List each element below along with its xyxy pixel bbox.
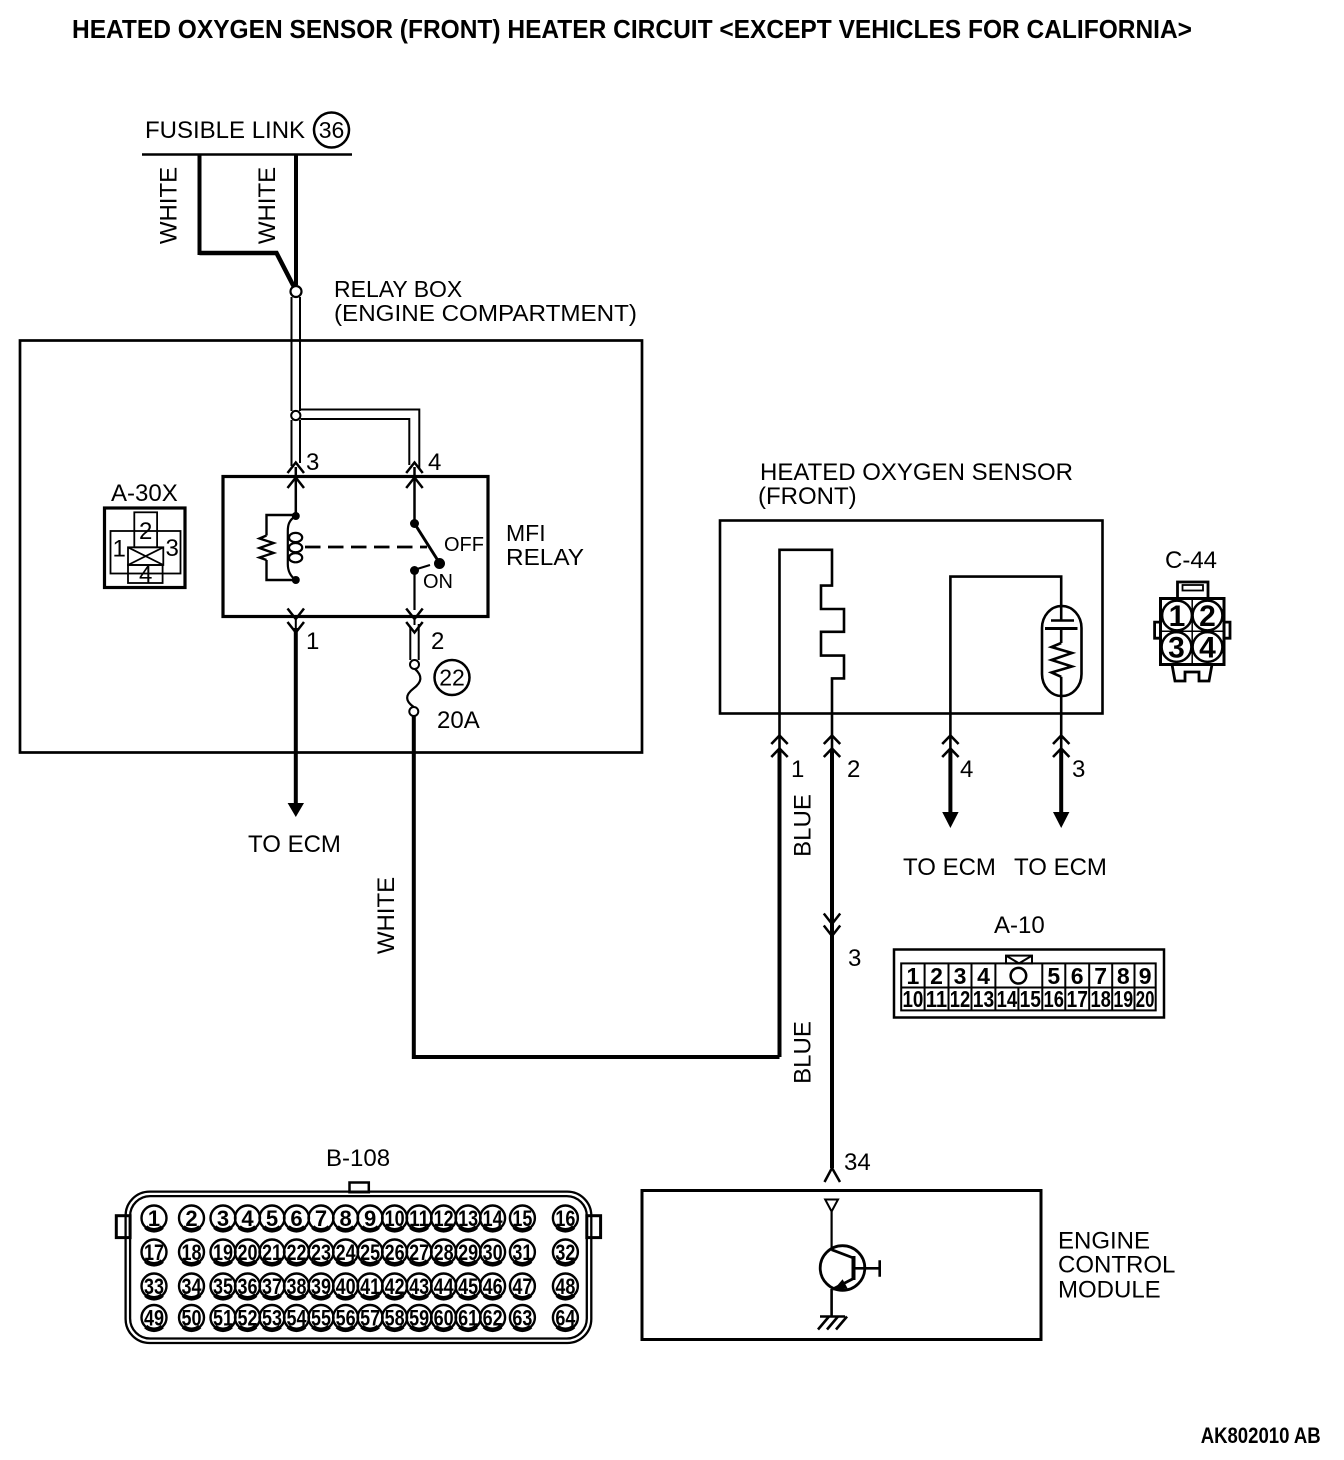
connector C-44 divider cross: [1161, 599, 1225, 665]
C-44 cavity 1: [1162, 600, 1192, 633]
svg-text:52: 52: [238, 1305, 258, 1330]
blue wire end fork at ECM: [825, 1168, 841, 1182]
svg-text:3: 3: [306, 449, 319, 476]
fusible link number 36: [314, 113, 349, 148]
svg-text:47: 47: [512, 1274, 532, 1299]
relay switch wire to pin 2: [413, 571, 415, 611]
svg-text:TO ECM: TO ECM: [903, 854, 996, 881]
svg-text:MFI: MFI: [506, 520, 546, 546]
svg-text:33: 33: [144, 1274, 164, 1299]
svg-text:3: 3: [166, 535, 179, 562]
svg-text:A-10: A-10: [994, 912, 1045, 939]
svg-text:48: 48: [555, 1274, 575, 1299]
sensor element capsule: [1042, 606, 1082, 696]
svg-text:12: 12: [950, 986, 971, 1012]
svg-text:43: 43: [409, 1274, 429, 1299]
svg-text:21: 21: [262, 1240, 282, 1265]
svg-text:OFF: OFF: [444, 534, 484, 556]
A-10 top row pin numbers: [907, 963, 1152, 989]
svg-text:6: 6: [290, 1206, 302, 1231]
svg-text:WHITE: WHITE: [373, 877, 400, 954]
svg-text:63: 63: [512, 1305, 532, 1330]
relay switch blade end dot: [434, 558, 445, 569]
relay box (engine compartment) outline: [20, 341, 642, 753]
svg-text:31: 31: [512, 1240, 532, 1265]
svg-text:3: 3: [848, 945, 861, 972]
relay coil L1: [288, 516, 302, 580]
svg-text:BLUE: BLUE: [790, 794, 817, 857]
fuse number 22 circled: [435, 660, 470, 695]
connector A-30X wide cavity box: [111, 531, 181, 574]
svg-text:16: 16: [555, 1206, 575, 1231]
ground symbol: [818, 1317, 847, 1330]
svg-text:2: 2: [139, 518, 152, 545]
B-108 pin row 17-32: [142, 1240, 578, 1265]
svg-text:50: 50: [182, 1305, 202, 1330]
svg-text:2: 2: [847, 756, 860, 783]
sensor cell wire pin 4: [950, 577, 1061, 714]
svg-text:2: 2: [1199, 600, 1216, 633]
blue wire connector pass-through arrows: [824, 914, 840, 937]
relay switch ON contact tick: [417, 565, 430, 569]
svg-text:9: 9: [364, 1206, 376, 1231]
svg-text:34: 34: [182, 1274, 203, 1299]
svg-text:16: 16: [1044, 986, 1065, 1012]
svg-text:1: 1: [306, 628, 319, 655]
svg-text:17: 17: [144, 1240, 164, 1265]
svg-text:51: 51: [213, 1305, 233, 1330]
connector B-108 outer shell: [126, 1192, 592, 1343]
svg-text:62: 62: [483, 1305, 503, 1330]
svg-text:40: 40: [336, 1274, 356, 1299]
heated oxygen sensor box: [720, 521, 1103, 714]
svg-text:28: 28: [434, 1240, 454, 1265]
svg-text:TO ECM: TO ECM: [1014, 854, 1107, 881]
svg-text:57: 57: [360, 1305, 380, 1330]
svg-text:WHITE: WHITE: [254, 167, 281, 244]
svg-text:4: 4: [960, 756, 973, 783]
svg-text:14: 14: [483, 1206, 504, 1231]
svg-text:19: 19: [1113, 986, 1133, 1012]
wire white right from fusible link: [294, 155, 298, 286]
svg-text:HEATED OXYGEN SENSOR: HEATED OXYGEN SENSOR: [760, 459, 1073, 486]
svg-text:34: 34: [844, 1149, 871, 1176]
transistor Q1 collector into base bar: [832, 1250, 854, 1258]
C-44 cavity 2: [1193, 600, 1223, 633]
svg-text:MODULE: MODULE: [1058, 1277, 1161, 1304]
sensor pin 1 arrows: [771, 714, 787, 758]
svg-text:22: 22: [287, 1240, 307, 1265]
connector A-10 outer box: [894, 950, 1164, 1018]
pin 3 arrow into MFI relay: [288, 463, 305, 517]
svg-text:25: 25: [360, 1240, 380, 1265]
connector B-108 left tab: [116, 1216, 130, 1238]
svg-text:27: 27: [409, 1240, 429, 1265]
arrow to ECM (pin 3): [1053, 812, 1069, 828]
svg-text:15: 15: [1020, 986, 1042, 1012]
svg-text:37: 37: [262, 1274, 282, 1299]
svg-text:29: 29: [458, 1240, 478, 1265]
connector C-44 body: [1161, 599, 1225, 665]
svg-text:4: 4: [1199, 632, 1216, 665]
arrow to ECM (left): [288, 803, 304, 817]
svg-text:13: 13: [458, 1206, 478, 1231]
svg-text:(FRONT): (FRONT): [758, 483, 857, 510]
B-108 pin row 49-64: [142, 1305, 578, 1330]
svg-text:2: 2: [431, 628, 444, 655]
svg-text:42: 42: [385, 1274, 405, 1299]
resistor zigzag: [260, 536, 274, 561]
connector B-108 top tab: [350, 1183, 369, 1193]
relay resistor parallel branch: [267, 515, 296, 580]
svg-text:20A: 20A: [437, 707, 480, 734]
svg-text:A-30X: A-30X: [111, 480, 178, 507]
wire bend joining white wires: [200, 253, 294, 286]
heater element comb: [780, 550, 845, 714]
B-108 pin row 1-16: [142, 1206, 578, 1231]
svg-text:64: 64: [555, 1305, 576, 1330]
svg-text:17: 17: [1067, 986, 1088, 1012]
svg-text:23: 23: [311, 1240, 331, 1265]
pin 4 arrow into MFI relay: [406, 463, 423, 524]
svg-text:ON: ON: [423, 571, 453, 593]
svg-text:8: 8: [339, 1206, 351, 1231]
connector A-30X cavity 2 box: [134, 512, 157, 547]
svg-text:61: 61: [458, 1305, 478, 1330]
svg-text:55: 55: [311, 1305, 331, 1330]
svg-text:58: 58: [385, 1305, 405, 1330]
svg-text:46: 46: [483, 1274, 503, 1299]
relay coil node top: [292, 512, 300, 520]
svg-text:24: 24: [336, 1240, 357, 1265]
svg-text:45: 45: [458, 1274, 478, 1299]
pin 1 arrow out of MFI relay: [288, 609, 305, 633]
svg-text:14: 14: [997, 986, 1018, 1012]
connector B-108 right tab: [587, 1216, 601, 1238]
svg-text:2: 2: [185, 1206, 197, 1231]
svg-text:18: 18: [182, 1240, 202, 1265]
sensor pin 2 arrows: [824, 714, 840, 758]
relay switch blade (OFF position): [415, 524, 440, 564]
svg-text:FUSIBLE LINK: FUSIBLE LINK: [145, 117, 305, 144]
connector C-44 bottom key: [1172, 665, 1212, 682]
svg-text:26: 26: [385, 1240, 405, 1265]
svg-text:HEATED OXYGEN SENSOR (FRONT) H: HEATED OXYGEN SENSOR (FRONT) HEATER CIRC…: [72, 14, 1192, 44]
transistor Q1 emitter wire: [830, 1289, 833, 1317]
wire double-line branch to pin 4: [301, 410, 420, 469]
svg-text:ENGINE: ENGINE: [1058, 1228, 1150, 1255]
svg-text:7: 7: [315, 1206, 327, 1231]
sensor capsule internals: [1045, 606, 1078, 643]
connector A-30X outer box: [105, 508, 186, 588]
svg-text:3: 3: [1168, 632, 1185, 665]
svg-text:C-44: C-44: [1165, 547, 1217, 574]
wire white left from fusible link: [198, 155, 202, 256]
B-108 pin row 33-48: [142, 1274, 578, 1299]
svg-text:5: 5: [266, 1206, 278, 1231]
relay switch ON contact dot: [410, 566, 419, 575]
svg-text:15: 15: [512, 1206, 532, 1231]
svg-text:54: 54: [287, 1305, 308, 1330]
svg-text:RELAY BOX: RELAY BOX: [334, 276, 462, 302]
connector C-44 top tab: [1178, 582, 1209, 599]
svg-text:RELAY: RELAY: [506, 544, 584, 570]
svg-text:56: 56: [336, 1305, 356, 1330]
relay coil node bottom: [292, 576, 300, 584]
C-44 cavity 3: [1162, 632, 1192, 665]
connector A-30X keying X box: [128, 547, 163, 565]
svg-text:3: 3: [1072, 756, 1085, 783]
sensor pin 4 arrows: [942, 714, 958, 758]
svg-text:11: 11: [409, 1206, 429, 1231]
wire double-line relay pin 2 to fuse: [409, 627, 411, 660]
svg-text:4: 4: [428, 449, 441, 476]
wire white from fuse down and right to sensor pin 1: [414, 716, 780, 1057]
sensor element wire pin 3: [1060, 677, 1063, 714]
svg-text:60: 60: [434, 1305, 454, 1330]
relay switch common dot: [410, 519, 419, 528]
svg-text:20: 20: [238, 1240, 258, 1265]
svg-text:BLUE: BLUE: [790, 1021, 817, 1084]
svg-text:53: 53: [262, 1305, 282, 1330]
connector A-10 pin grid: [901, 963, 1155, 1010]
svg-text:49: 49: [144, 1305, 164, 1330]
svg-text:AK802010 AB: AK802010 AB: [1201, 1423, 1321, 1448]
pin 2 arrow out of MFI relay: [406, 609, 423, 633]
node splice at relay box entry: [291, 286, 302, 297]
C-44 cavity 4: [1193, 632, 1223, 665]
wire blue from sensor pin 2 down to ECM: [830, 750, 834, 1168]
MFI relay box U1: [223, 477, 488, 617]
svg-text:3: 3: [217, 1206, 229, 1231]
fuse F22 squiggle: [407, 669, 420, 708]
svg-text:10: 10: [385, 1206, 405, 1231]
transistor Q1 collector wire: [830, 1212, 832, 1251]
relay actuation dashed link: [305, 546, 427, 549]
transistor Q1 circle: [820, 1246, 865, 1291]
engine control module box: [642, 1191, 1041, 1340]
svg-text:18: 18: [1090, 986, 1111, 1012]
svg-text:4: 4: [139, 562, 152, 589]
svg-text:44: 44: [434, 1274, 455, 1299]
svg-text:1: 1: [113, 536, 126, 563]
fuse top node: [410, 660, 419, 669]
wire pin 3 to ECM: [1059, 750, 1063, 815]
svg-text:B-108: B-108: [326, 1145, 390, 1172]
svg-text:1: 1: [791, 756, 804, 783]
svg-text:38: 38: [287, 1274, 307, 1299]
svg-text:39: 39: [311, 1274, 331, 1299]
svg-text:1: 1: [148, 1206, 160, 1231]
wire from relay pin 1 down: [294, 628, 298, 806]
connector C-44 side tabs: [1155, 622, 1230, 638]
svg-text:36: 36: [238, 1274, 258, 1299]
fuse bottom node: [409, 707, 418, 716]
connector A-10 cavity circle: [1011, 968, 1027, 984]
connector B-108 inner shell: [130, 1196, 587, 1338]
svg-text:59: 59: [409, 1305, 429, 1330]
wire pin 4 to ECM: [948, 750, 952, 815]
connector A-10 index notch: [1006, 956, 1032, 964]
svg-text:19: 19: [213, 1240, 233, 1265]
svg-text:30: 30: [483, 1240, 503, 1265]
svg-text:TO ECM: TO ECM: [248, 831, 341, 858]
svg-text:13: 13: [973, 986, 994, 1012]
svg-text:11: 11: [926, 986, 948, 1012]
svg-text:22: 22: [439, 665, 465, 691]
wire double-line junction to pin 3: [291, 420, 293, 466]
arrow to ECM (pin 4): [942, 812, 958, 828]
svg-text:WHITE: WHITE: [156, 167, 183, 244]
svg-text:41: 41: [360, 1274, 380, 1299]
svg-text:4: 4: [241, 1206, 254, 1231]
svg-text:CONTROL: CONTROL: [1058, 1252, 1175, 1279]
transistor Q1 emitter with arrow: [834, 1279, 854, 1289]
connector A-30X cavity 4 box: [128, 565, 163, 583]
ECM input triangle: [825, 1200, 838, 1212]
svg-text:35: 35: [213, 1274, 233, 1299]
svg-text:12: 12: [434, 1206, 454, 1231]
wire double-line from splice to junction: [291, 297, 293, 411]
sensor element zigzag: [1052, 643, 1073, 677]
svg-text:20: 20: [1136, 986, 1155, 1012]
svg-text:1: 1: [1169, 600, 1186, 633]
svg-text:36: 36: [319, 117, 345, 143]
transistor Q1 base lead and T-end: [854, 1260, 880, 1276]
svg-text:10: 10: [902, 986, 923, 1012]
node junction to pin 4 branch: [291, 411, 300, 420]
transistor Q1 base bar: [852, 1256, 856, 1280]
fusible link bus wire: [142, 153, 352, 156]
svg-text:32: 32: [555, 1240, 575, 1265]
sensor pin 3 arrows: [1053, 714, 1069, 758]
A-10 bottom row pin numbers: [902, 986, 1154, 1012]
svg-text:(ENGINE COMPARTMENT): (ENGINE COMPARTMENT): [334, 300, 637, 326]
